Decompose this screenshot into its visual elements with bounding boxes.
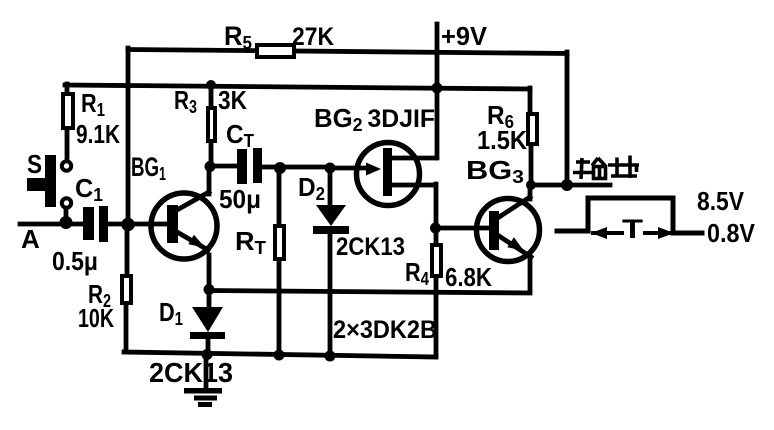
node D2 top xyxy=(325,163,336,174)
wire BG2 gate lead xyxy=(330,166,364,171)
node output R6 xyxy=(526,180,536,190)
arrowhead waveform right xyxy=(658,227,674,239)
svg-text:2CK13: 2CK13 xyxy=(336,233,405,261)
resistor RT xyxy=(275,226,284,259)
wire D1 leads xyxy=(208,289,209,355)
svg-text:R4: R4 xyxy=(405,257,429,289)
node R3 top xyxy=(206,80,216,90)
wire +9V supply rail xyxy=(65,85,530,89)
wire BG2 drain xyxy=(391,156,435,161)
resistor R6 xyxy=(528,114,537,144)
T arrow shafts xyxy=(593,231,671,235)
transistor BG1 xyxy=(151,193,217,259)
svg-text:A: A xyxy=(21,224,40,254)
svg-text:D2: D2 xyxy=(298,172,325,204)
wire R6 bottom lead xyxy=(529,145,534,185)
svg-text:0.5μ: 0.5μ xyxy=(52,246,98,276)
svg-text:T: T xyxy=(622,214,644,244)
svg-text:0.8V: 0.8V xyxy=(707,218,756,248)
diode D2 xyxy=(316,205,346,226)
wire CT to D2 node xyxy=(262,165,331,170)
wire drop to R6 xyxy=(528,88,533,114)
label shu (output) char 1 xyxy=(573,158,606,179)
node RT bottom xyxy=(274,350,285,361)
node BG1 base xyxy=(121,218,135,232)
svg-text:2×3DK2B: 2×3DK2B xyxy=(333,316,437,344)
wire emitter bus to BG3 xyxy=(208,291,530,294)
svg-text:6.8K: 6.8K xyxy=(445,262,492,292)
ground xyxy=(184,388,222,394)
wire BG2 source to BG3 base xyxy=(434,226,488,231)
wire BG2 source xyxy=(391,184,436,227)
svg-text:8.5V: 8.5V xyxy=(697,186,745,216)
wire riser bottom rail to R4 xyxy=(434,293,439,356)
svg-text:50μ: 50μ xyxy=(219,184,261,214)
wire ground lead xyxy=(204,355,209,389)
wire +9V drop to BG2 drain xyxy=(435,24,440,158)
label chu (output) char 2 xyxy=(608,156,639,179)
arrowhead BG2 gate xyxy=(366,163,381,176)
resistor R3 xyxy=(208,108,215,141)
wire BG1 collector xyxy=(177,166,209,210)
wire output node line xyxy=(531,183,610,188)
svg-text:10K: 10K xyxy=(78,303,114,333)
capacitor C1 xyxy=(83,207,94,240)
resistor R1 xyxy=(63,94,73,128)
svg-text:R5: R5 xyxy=(224,21,252,53)
wire D2 leads xyxy=(328,168,333,356)
node D2 bottom xyxy=(325,351,336,362)
wire RT leads xyxy=(277,168,282,356)
resistor R4 xyxy=(432,245,441,276)
node output riser xyxy=(561,179,573,191)
arrowhead waveform left xyxy=(591,227,607,239)
output pulse waveform xyxy=(557,198,702,233)
svg-text:BG1: BG1 xyxy=(131,152,166,184)
resistor R2 xyxy=(122,276,131,303)
svg-text:R1: R1 xyxy=(81,88,105,120)
svg-text:S: S xyxy=(27,149,42,179)
wire BG1 emitter xyxy=(177,232,208,250)
wire R1 bottom lead to switch xyxy=(65,128,70,161)
svg-text:2CK13: 2CK13 xyxy=(149,357,233,388)
diode D1 xyxy=(192,307,223,332)
switch S plunger xyxy=(45,155,56,207)
arrowhead BG3 emitter xyxy=(507,237,524,251)
wire R4 leads xyxy=(434,228,439,294)
wire input A to C1 xyxy=(20,222,84,227)
node switch input xyxy=(60,216,73,229)
wire bottom ground rail xyxy=(124,352,436,357)
wire BG1 emitter riser xyxy=(207,255,212,290)
svg-text:BG2 3DJIF: BG2 3DJIF xyxy=(314,103,435,135)
svg-text:27K: 27K xyxy=(292,23,334,51)
wire collector node to CT xyxy=(211,164,237,169)
wire switch to input node xyxy=(64,208,69,223)
svg-text:R3: R3 xyxy=(174,85,197,117)
wire BG3 emitter xyxy=(499,236,531,257)
transistor BG2 xyxy=(357,143,420,206)
capacitor CT xyxy=(237,149,247,184)
node +9V rail xyxy=(432,83,443,94)
arrowhead BG1 emitter xyxy=(188,235,205,248)
wire C1 to BG1 base xyxy=(106,222,168,227)
wire drop to R1 xyxy=(65,84,70,94)
svg-text:+9V: +9V xyxy=(441,21,488,51)
wire R3 leads xyxy=(209,84,214,167)
svg-text:D1: D1 xyxy=(159,297,183,329)
wire left riser from top rail to base node xyxy=(126,48,131,224)
node CT-RT xyxy=(274,162,286,174)
svg-text:RT: RT xyxy=(235,226,266,258)
svg-text:3K: 3K xyxy=(218,85,247,115)
switch S contact top xyxy=(62,161,71,170)
node BG1 collector xyxy=(205,161,216,172)
node D1 ground xyxy=(202,349,213,360)
wire top rail with R5 xyxy=(128,50,567,54)
svg-text:CT: CT xyxy=(226,119,254,151)
wire R2 leads xyxy=(126,224,127,352)
node BG2 source xyxy=(430,223,441,234)
wire BG3 collector xyxy=(499,185,530,217)
wire right riser from top rail to output node xyxy=(565,52,570,185)
svg-text:9.1K: 9.1K xyxy=(76,119,120,149)
wire BG3 emitter riser xyxy=(528,257,533,291)
svg-text:BG3: BG3 xyxy=(466,155,524,187)
svg-text:1.5K: 1.5K xyxy=(477,125,527,155)
transistor BG3 xyxy=(477,199,540,262)
svg-text:C1: C1 xyxy=(75,173,103,205)
switch S contact bottom xyxy=(62,198,71,207)
node BG1 emitter xyxy=(204,284,215,295)
resistor R5 xyxy=(257,45,294,57)
